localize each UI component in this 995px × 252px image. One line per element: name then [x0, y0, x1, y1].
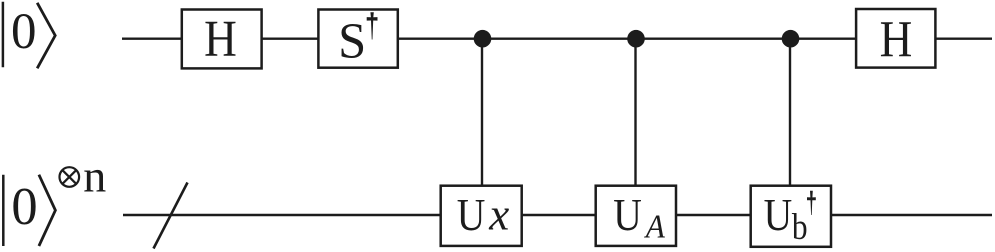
wire top segment 4 — [935, 38, 992, 40]
control dot 2 — [627, 30, 645, 48]
svg-text:H: H — [880, 11, 913, 69]
svg-text:U: U — [764, 190, 793, 240]
tensor otimes symbol — [60, 167, 80, 187]
svg-text:n: n — [83, 151, 106, 202]
gate S-dagger box — [318, 10, 397, 68]
gate H2 box — [856, 9, 935, 68]
S dagger superscript — [367, 12, 378, 39]
svg-text:A: A — [644, 208, 666, 245]
bottom wire segment 1 — [123, 214, 441, 216]
gate Ub dagger superscript — [807, 191, 816, 215]
ket |0> top qubit label — [3, 2, 55, 69]
svg-text:H: H — [204, 12, 237, 68]
control vertical wire 3 — [789, 39, 791, 187]
control dot 1 — [474, 30, 492, 48]
ket |0>^(x)n bottom register label — [3, 175, 55, 246]
bottom wire segment 3 — [676, 214, 751, 216]
wire top segment 2 — [262, 38, 319, 40]
bus slash — [154, 183, 188, 249]
svg-text:x: x — [488, 190, 509, 240]
gate UA box — [596, 186, 676, 246]
svg-text:S: S — [338, 13, 366, 69]
bottom wire segment 2 — [522, 214, 596, 216]
bottom wire segment 4 — [831, 214, 992, 216]
svg-text:0: 0 — [11, 178, 37, 236]
control vertical wire 1 — [481, 39, 483, 187]
gate Ux box — [441, 186, 522, 246]
svg-text:U: U — [457, 190, 486, 240]
control vertical wire 2 — [634, 39, 636, 187]
gate H1 box — [182, 10, 262, 69]
svg-text:b: b — [792, 207, 808, 248]
control dot 3 — [782, 30, 800, 48]
wire top segment 1 — [122, 38, 182, 40]
svg-text:0: 0 — [11, 4, 37, 60]
wire top segment 3 — [398, 38, 856, 40]
svg-text:U: U — [613, 190, 642, 240]
gate Ub-dagger box — [751, 186, 831, 247]
